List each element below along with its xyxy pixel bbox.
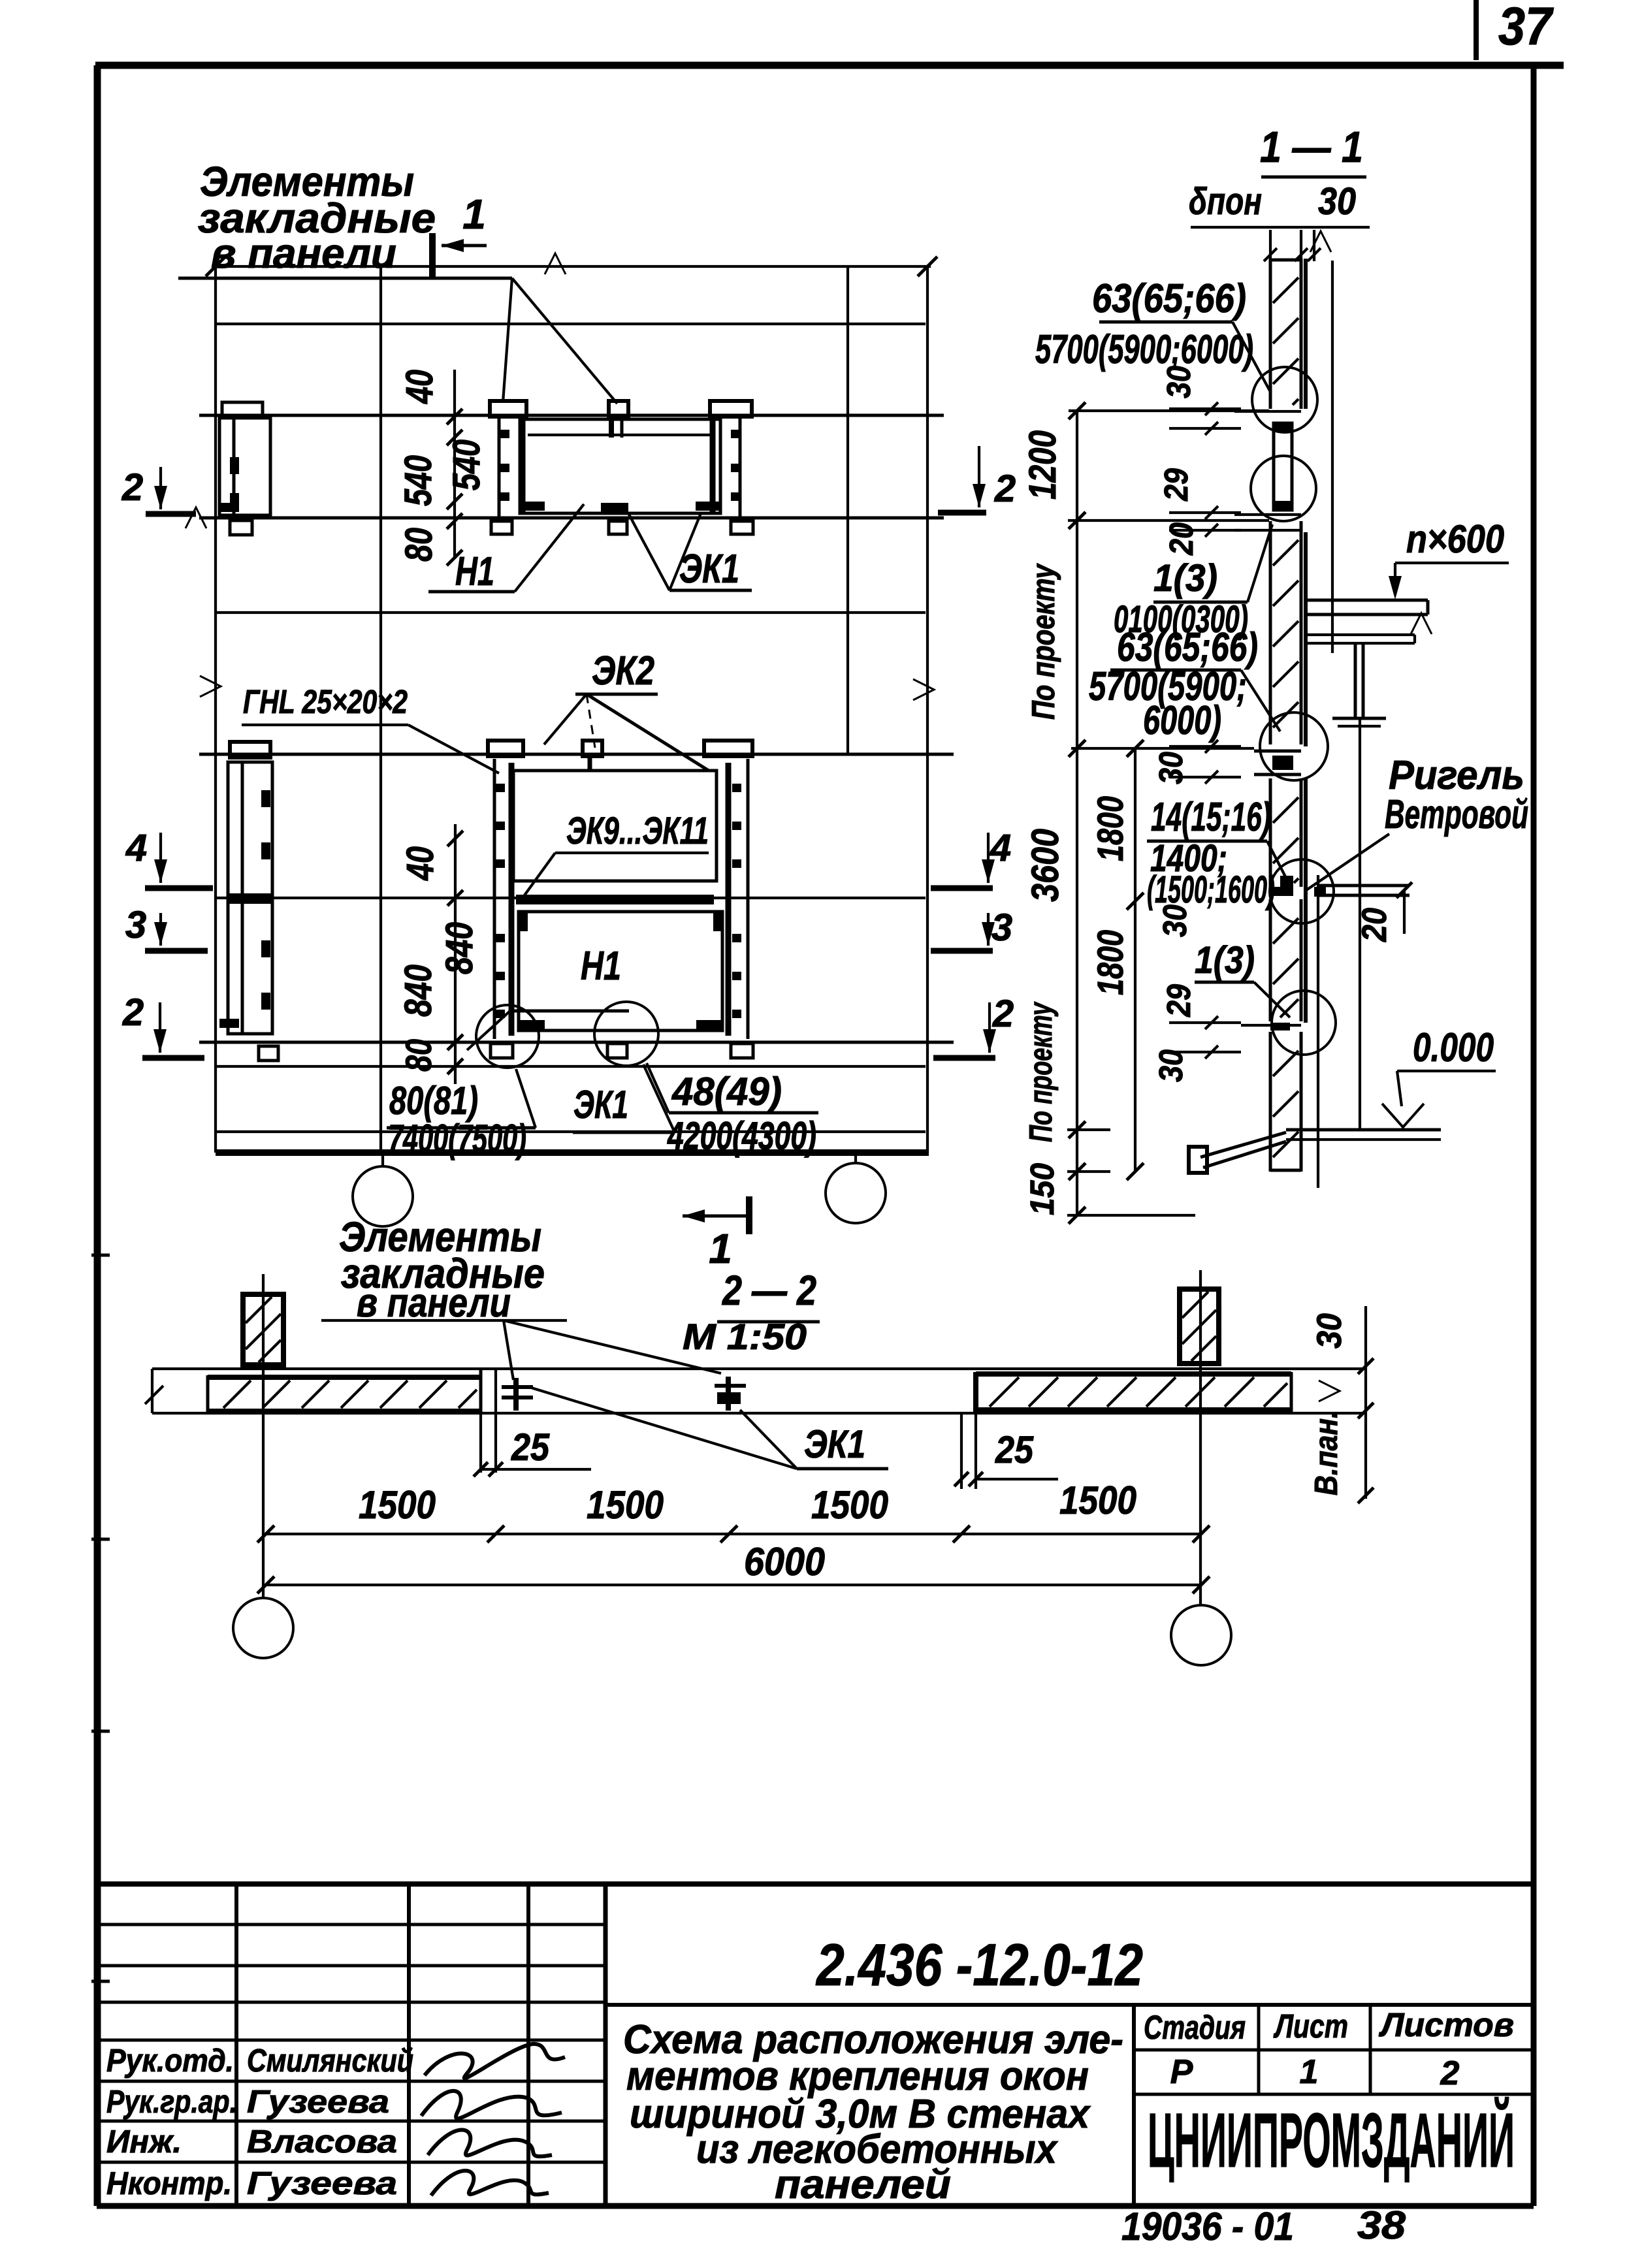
svg-text:1: 1 <box>1300 2053 1319 2091</box>
svg-text:в панели: в панели <box>211 230 396 277</box>
svg-text:30: 30 <box>1152 1049 1189 1082</box>
svg-text:ЦНИИПРОМЗДАНИЙ: ЦНИИПРОМЗДАНИЙ <box>1148 2096 1515 2184</box>
svg-text:2: 2 <box>994 468 1016 510</box>
svg-text:δпон: δпон <box>1189 180 1262 223</box>
svg-text:2.436 -12.0-12: 2.436 -12.0-12 <box>815 1932 1143 1998</box>
svg-text:40: 40 <box>398 370 441 404</box>
svg-text:6000): 6000) <box>1143 698 1221 743</box>
svg-text:1500: 1500 <box>359 1483 436 1527</box>
svg-text:38: 38 <box>1357 2203 1406 2247</box>
svg-text:1(3): 1(3) <box>1153 557 1217 599</box>
svg-text:n×600: n×600 <box>1406 517 1504 561</box>
svg-text:Гузеева: Гузеева <box>247 2166 397 2201</box>
svg-text:(1500;1600): (1500;1600) <box>1147 869 1275 911</box>
svg-text:80: 80 <box>398 1039 439 1072</box>
svg-text:Гузеева: Гузеева <box>247 2084 389 2120</box>
svg-text:2: 2 <box>992 993 1014 1035</box>
svg-text:1800: 1800 <box>1089 796 1131 861</box>
svg-text:Ветровой: Ветровой <box>1385 792 1528 837</box>
svg-text:1: 1 <box>462 191 486 238</box>
svg-text:840: 840 <box>438 922 481 974</box>
svg-text:29: 29 <box>1160 983 1197 1017</box>
svg-text:ЭК2: ЭК2 <box>592 648 654 694</box>
svg-text:25: 25 <box>995 1429 1034 1471</box>
svg-text:Лист: Лист <box>1273 2007 1348 2045</box>
svg-text:Р: Р <box>1170 2053 1193 2091</box>
svg-text:40: 40 <box>399 846 442 881</box>
svg-text:5700(5900;6000): 5700(5900;6000) <box>1035 327 1253 372</box>
svg-text:20: 20 <box>1355 908 1394 942</box>
svg-text:3: 3 <box>125 904 146 946</box>
svg-text:80(81): 80(81) <box>389 1079 478 1123</box>
svg-text:ЭК9...ЭК11: ЭК9...ЭК11 <box>566 810 709 852</box>
svg-text:20: 20 <box>1163 522 1200 556</box>
svg-text:ЭК1: ЭК1 <box>573 1083 628 1126</box>
svg-text:2: 2 <box>121 466 143 509</box>
svg-text:ЭК1: ЭК1 <box>804 1422 865 1466</box>
svg-text:80: 80 <box>398 528 440 562</box>
svg-text:63(65;66): 63(65;66) <box>1117 625 1258 670</box>
svg-text:3600: 3600 <box>1024 829 1067 902</box>
svg-text:30: 30 <box>1152 752 1189 784</box>
svg-text:В.пан.: В.пан. <box>1309 1411 1344 1495</box>
svg-text:150: 150 <box>1023 1163 1061 1215</box>
svg-text:ЭК1: ЭК1 <box>679 547 739 592</box>
svg-text:Нконтр.: Нконтр. <box>106 2166 232 2201</box>
svg-text:в панели: в панели <box>357 1281 511 1326</box>
svg-text:30: 30 <box>1310 1313 1349 1349</box>
svg-text:540: 540 <box>397 455 440 506</box>
svg-text:По проекту: По проекту <box>1026 563 1061 720</box>
svg-text:Рук.отд.: Рук.отд. <box>106 2043 234 2079</box>
svg-text:48(49): 48(49) <box>671 1070 782 1113</box>
svg-text:ГНL 25×20×2: ГНL 25×20×2 <box>243 683 408 720</box>
svg-text:4200(4300): 4200(4300) <box>667 1114 816 1158</box>
svg-text:1 — 1: 1 — 1 <box>1260 123 1363 172</box>
svg-text:1: 1 <box>709 1225 732 1272</box>
svg-text:4: 4 <box>125 827 147 869</box>
svg-text:Рук.гр.ар.: Рук.гр.ар. <box>106 2084 237 2120</box>
svg-text:2 — 2: 2 — 2 <box>722 1267 816 1314</box>
svg-text:Смилянский: Смилянский <box>247 2043 413 2079</box>
svg-text:6000: 6000 <box>744 1540 825 1584</box>
svg-text:2: 2 <box>122 991 144 1034</box>
svg-text:1500: 1500 <box>587 1483 664 1527</box>
svg-text:Н1: Н1 <box>455 549 494 594</box>
svg-text:панелей: панелей <box>775 2162 951 2207</box>
svg-text:2: 2 <box>1440 2054 1460 2092</box>
svg-text:540: 540 <box>445 439 488 490</box>
svg-text:Инж.: Инж. <box>106 2124 182 2160</box>
svg-text:1200: 1200 <box>1022 430 1064 500</box>
svg-text:Власова: Власова <box>247 2124 397 2160</box>
svg-text:0.000: 0.000 <box>1413 1025 1494 1070</box>
svg-text:1800: 1800 <box>1089 930 1131 995</box>
svg-text:30: 30 <box>1318 180 1356 223</box>
svg-text:7400(7500): 7400(7500) <box>388 1117 526 1160</box>
svg-text:25: 25 <box>511 1426 550 1469</box>
svg-text:1500: 1500 <box>811 1483 888 1527</box>
svg-text:3: 3 <box>991 906 1012 949</box>
svg-text:По проекту: По проекту <box>1023 1001 1059 1142</box>
svg-text:1500: 1500 <box>1059 1478 1136 1522</box>
svg-text:14(15;16): 14(15;16) <box>1151 795 1271 840</box>
svg-text:М 1:50: М 1:50 <box>683 1316 807 1357</box>
svg-text:29: 29 <box>1157 468 1195 501</box>
svg-text:19036 - 01: 19036 - 01 <box>1121 2205 1294 2248</box>
svg-text:1(3): 1(3) <box>1195 939 1255 982</box>
svg-text:Н1: Н1 <box>581 944 621 989</box>
svg-text:840: 840 <box>397 965 440 1017</box>
svg-text:Ригель: Ригель <box>1389 753 1524 798</box>
svg-text:37: 37 <box>1498 0 1554 56</box>
svg-text:Стадия: Стадия <box>1144 2009 1246 2046</box>
svg-text:Листов: Листов <box>1378 2006 1514 2043</box>
svg-text:63(65;66): 63(65;66) <box>1092 276 1246 321</box>
